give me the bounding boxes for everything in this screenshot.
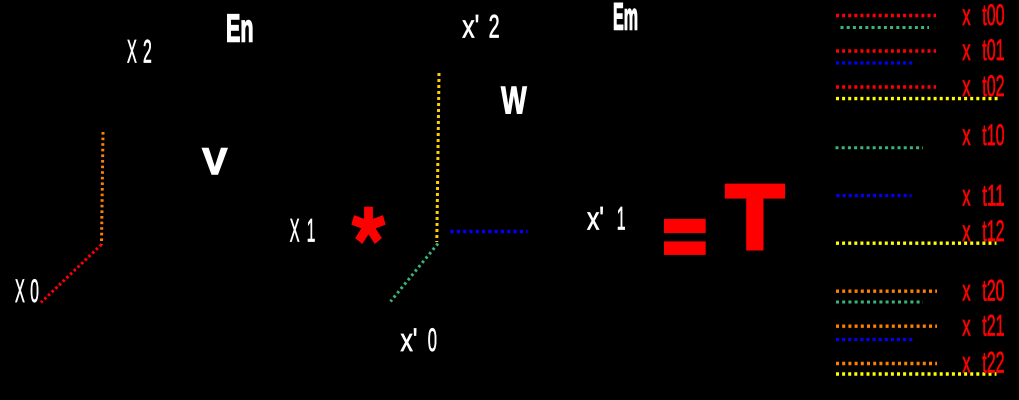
axis x'0 (green dotted diagonal) [391, 244, 439, 302]
svg-text:x: x [962, 0, 971, 32]
svg-text:X: X [290, 213, 300, 249]
legend label x t21 [962, 309, 1004, 342]
legend row t02: yellow line (x'2 contribution) [836, 97, 999, 100]
legend row t22: orange line (x2) [836, 362, 937, 365]
label x' 1 [587, 201, 626, 237]
legend row t21: blue line (x'1 contribution) [836, 338, 913, 341]
legend label x t01 [962, 34, 1004, 67]
svg-text:1: 1 [617, 201, 626, 237]
legend row t11: blue line (x'1 contribution) [837, 194, 912, 197]
legend row t10: green line (x'0 contribution) [836, 146, 924, 149]
svg-text:t02: t02 [982, 70, 1004, 103]
legend label x t22 [962, 346, 1004, 379]
svg-text:0: 0 [428, 322, 437, 358]
matrix T (big red letter T) [725, 184, 785, 199]
legend row t00: green line (x'0 contribution) [841, 26, 930, 29]
svg-text:En: En [226, 7, 254, 50]
label X 2 [127, 33, 152, 69]
legend row t20: orange line (x2) [836, 290, 937, 293]
legend label x t00 [962, 0, 1004, 32]
svg-text:t20: t20 [982, 274, 1004, 307]
legend label x t10 [962, 119, 1004, 152]
operator * (red asterisk) [351, 207, 385, 244]
operator = (red equals sign) [664, 219, 706, 233]
axis X0 (red dotted diagonal, left coordinate system En) [41, 245, 102, 303]
legend row t00: red line (x0) [836, 14, 936, 18]
svg-text:x: x [962, 179, 971, 212]
legend row t12: yellow line (x'2 contribution) [836, 241, 997, 244]
svg-text:x': x' [401, 322, 418, 358]
legend row t20: green line (x'0 contribution) [836, 301, 923, 304]
label x' 0 [401, 322, 438, 358]
svg-text:V: V [202, 140, 227, 182]
svg-text:x: x [962, 346, 971, 379]
svg-text:X: X [15, 273, 25, 309]
svg-text:t12: t12 [982, 215, 1004, 248]
svg-text:W: W [501, 80, 527, 123]
svg-text:0: 0 [30, 273, 39, 309]
axis x'1 (blue dotted horizontal) [451, 230, 528, 233]
svg-text:Em: Em [613, 0, 638, 39]
axis x'2 (yellow dotted vertical, right coordinate system Em) [437, 73, 439, 242]
svg-text:1: 1 [307, 213, 316, 249]
svg-text:2: 2 [489, 9, 500, 45]
svg-text:t10: t10 [982, 119, 1004, 152]
label X 0 [15, 273, 39, 309]
svg-text:x: x [962, 309, 971, 342]
svg-text:x: x [962, 34, 971, 67]
axis X2 (orange dotted vertical, left coordinate system En) [102, 132, 104, 245]
svg-text:x': x' [587, 201, 604, 237]
svg-text:t21: t21 [982, 309, 1004, 342]
svg-text:x: x [962, 215, 971, 248]
legend row t01: red line (x0) [836, 49, 936, 52]
svg-text:x': x' [462, 9, 479, 45]
legend label x t11 [962, 179, 1004, 212]
svg-text:2: 2 [143, 33, 152, 69]
legend row t01: blue line (x'1 contribution) [836, 61, 913, 64]
svg-text:t11: t11 [982, 179, 1004, 212]
legend row t02: red line (x0) [836, 85, 936, 88]
label x' 2 [462, 9, 499, 45]
svg-text:x: x [962, 119, 971, 152]
svg-text:x: x [962, 70, 971, 103]
svg-text:x: x [962, 274, 971, 307]
svg-text:t01: t01 [982, 34, 1004, 67]
legend label x t12 [962, 215, 1004, 248]
legend label x t20 [962, 274, 1004, 307]
legend row t22: yellow line (x'2 contribution) [836, 372, 997, 375]
legend label x t02 [962, 70, 1004, 103]
svg-text:t00: t00 [982, 0, 1004, 32]
label X 1 [290, 213, 316, 249]
svg-text:X: X [127, 33, 137, 69]
legend row t21: orange line (x2) [836, 325, 937, 328]
svg-text:t22: t22 [982, 346, 1004, 379]
